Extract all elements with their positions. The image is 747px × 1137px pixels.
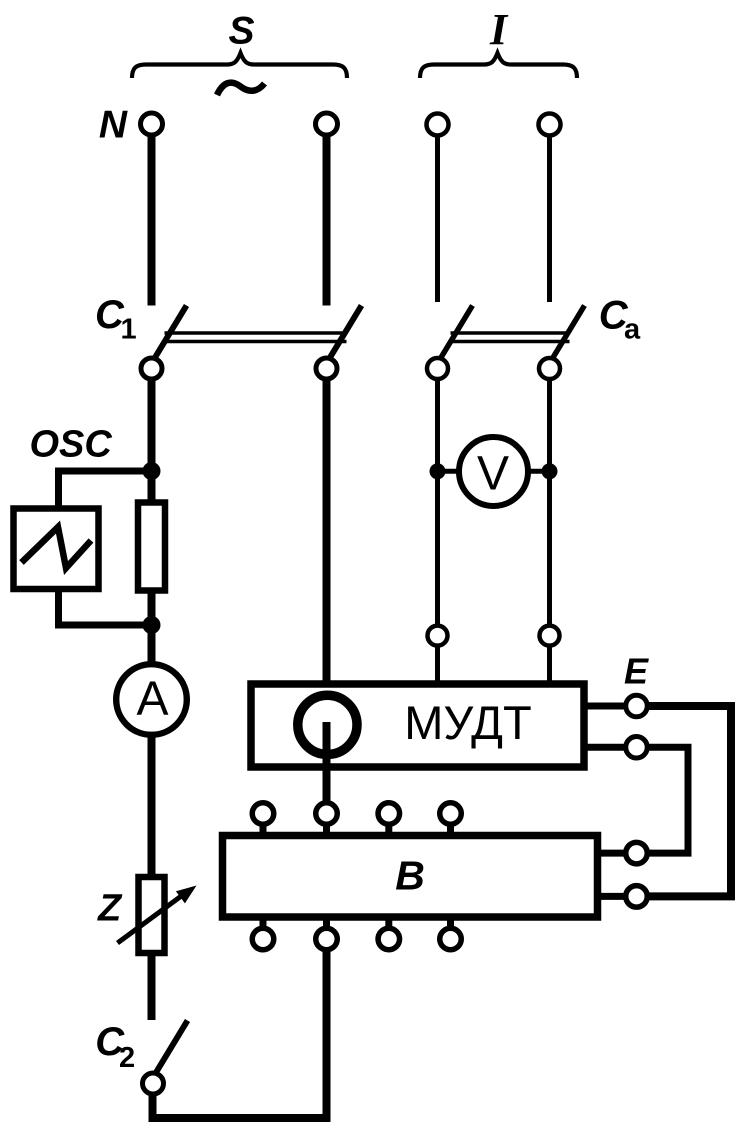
terminal E1 (626, 695, 648, 717)
svg-text:2: 2 (119, 1042, 135, 1074)
svg-text:B: B (395, 853, 425, 899)
wire L2 middle (switch to CT circle) (323, 379, 331, 692)
wire L2 through CT down to B (323, 722, 331, 801)
ac symbol tilde (217, 83, 265, 95)
switch Ca pole 2 contact circle (539, 358, 560, 379)
wire V meter right stub (523, 469, 550, 474)
svg-text:I: I (489, 5, 509, 54)
brace I (420, 53, 577, 78)
impedance Z box (139, 877, 165, 953)
switch Ca pole 2 blade (553, 306, 585, 358)
oscilloscope OSC box (14, 509, 99, 590)
svg-text:S: S (228, 10, 254, 53)
terminal L4 above MUDT (540, 626, 560, 646)
switch C2 contact circle (143, 1073, 164, 1094)
junction dot V left (430, 463, 446, 479)
wire OSC loop left upper (55, 468, 62, 507)
resistor R (138, 503, 165, 591)
svg-text:a: a (624, 313, 641, 345)
impedance Z arrow (118, 886, 197, 944)
label C2 (95, 1020, 135, 1074)
label MUDT (404, 696, 531, 749)
voltmeter V (459, 437, 528, 506)
label N (99, 104, 128, 147)
wire bottom horizontal (149, 1114, 327, 1122)
wire V meter left stub (438, 469, 466, 474)
junction dot OSC bottom (143, 616, 161, 634)
label S (228, 10, 254, 53)
linkage C1 (double line) (165, 333, 347, 342)
label Ca (599, 294, 641, 346)
wire L2 upper (323, 135, 331, 306)
label E (624, 651, 649, 692)
label B (395, 853, 425, 899)
ammeter A (116, 664, 187, 735)
terminal top of L4 (539, 114, 561, 136)
terminal E2 (626, 737, 648, 759)
terminal B bottom 1 (252, 918, 274, 950)
label Z (97, 888, 123, 930)
brace S (132, 53, 347, 78)
terminal L3 above MUDT (428, 626, 448, 646)
switch C1 pole 2 blade (330, 306, 362, 358)
switch C1 pole 1 blade (155, 306, 187, 358)
svg-text:E: E (624, 651, 649, 692)
wire OSC loop bottom (55, 622, 152, 629)
switch C1 pole 2 contact circle (316, 358, 337, 379)
switch C1 pole 1 contact circle (141, 358, 162, 379)
wire inner loop E2 to B right upper (646, 747, 688, 853)
wire B right upper stub (597, 850, 627, 857)
label I (489, 5, 509, 54)
wire L4 lower stub into MUDT (547, 647, 552, 684)
linkage Ca (double line) (451, 333, 570, 342)
terminal top of L2 (316, 113, 338, 135)
terminal B top 1 (252, 803, 274, 834)
wire L4 middle (547, 379, 552, 624)
wire L1 middle (switch to ammeter) (148, 379, 156, 700)
terminal B bottom 2 (316, 918, 338, 950)
svg-text:N: N (99, 104, 128, 147)
svg-text:A: A (136, 673, 168, 726)
wire E1 stub (582, 703, 627, 710)
svg-text:OSC: OSC (30, 424, 113, 466)
wire L1 ammeter to Z (148, 700, 156, 875)
terminal B top 2 (316, 803, 338, 834)
terminal B bottom 3 (378, 918, 400, 950)
label OSC (30, 424, 113, 466)
wire L1 upper (N line) (148, 135, 156, 306)
sawtooth waveform symbol (22, 527, 92, 568)
wire L3 middle (435, 379, 440, 624)
wire B right lower stub (597, 893, 627, 900)
wire L3 upper (435, 136, 440, 302)
junction dot V right (542, 463, 558, 479)
wire L2 bottom vertical (323, 940, 331, 1122)
terminal top of L3 (427, 114, 449, 136)
wire OSC loop left lower (55, 591, 62, 629)
wire C2 to bottom (149, 1093, 157, 1118)
svg-text:V: V (477, 448, 509, 501)
wire L4 upper (547, 136, 552, 302)
terminal B right lower (626, 886, 648, 908)
current transformer symbol in MUDT (298, 695, 357, 754)
wire E2 stub (582, 744, 627, 751)
wire OSC loop top (55, 468, 152, 475)
terminal B top 3 (378, 803, 400, 834)
junction dot OSC top (143, 462, 161, 480)
terminal B top 4 (440, 803, 462, 834)
switch C2 blade (156, 1021, 188, 1073)
svg-text:1: 1 (121, 314, 137, 346)
terminal B bottom 4 (440, 918, 462, 950)
label C1 (95, 293, 137, 346)
wire L1 below Z (148, 955, 156, 1020)
block MUDT box (251, 684, 584, 767)
svg-text:МУДТ: МУДТ (404, 696, 531, 749)
terminal N (top of L1) (141, 113, 163, 135)
wire L3 lower stub into MUDT (435, 647, 440, 684)
switch Ca pole 1 contact circle (427, 358, 448, 379)
switch Ca pole 1 blade (441, 306, 473, 358)
block B box (223, 836, 598, 918)
terminal B right upper (626, 842, 648, 864)
wire outer loop E1 to B right lower (646, 706, 731, 896)
svg-text:Z: Z (97, 888, 123, 930)
